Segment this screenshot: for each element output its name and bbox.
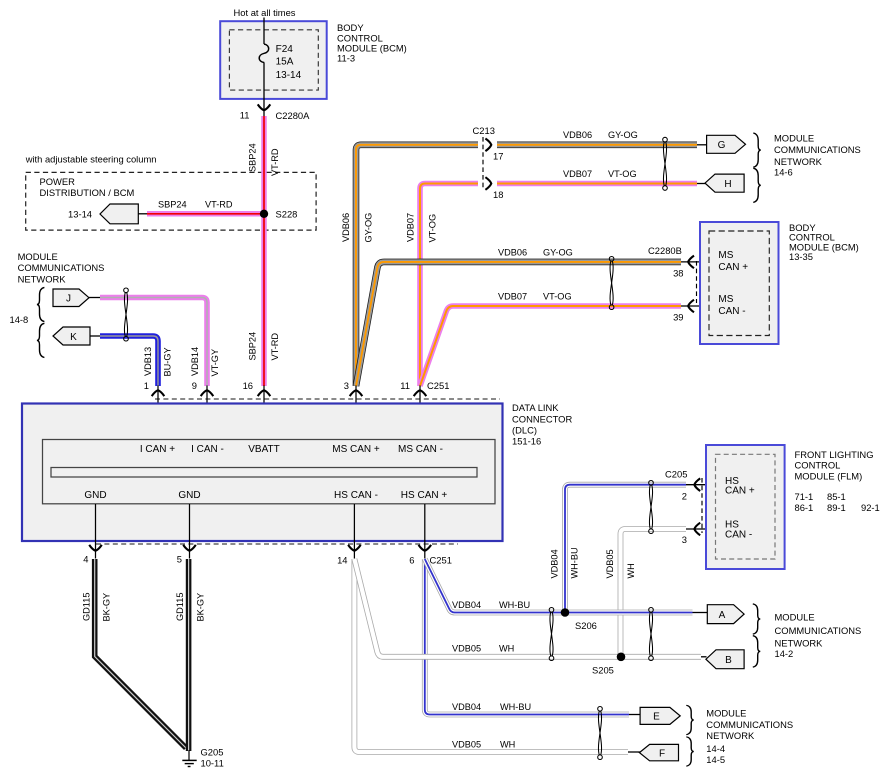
svg-text:VT-OG: VT-OG	[608, 169, 637, 179]
svg-text:11: 11	[400, 380, 410, 391]
svg-text:BU-GY: BU-GY	[163, 347, 173, 376]
svg-text:MODULE: MODULE	[706, 707, 746, 718]
svg-text:CAN +: CAN +	[725, 486, 755, 497]
labels VDB04 WH-BU (E row)	[452, 702, 531, 712]
svg-text:VT-RD: VT-RD	[270, 333, 280, 361]
svg-text:6: 6	[409, 555, 414, 566]
svg-text:E: E	[653, 712, 660, 723]
svg-text:HS CAN -: HS CAN -	[334, 490, 378, 501]
dashed box: with adjustable steering column	[26, 172, 316, 230]
svg-text:BK-GY: BK-GY	[101, 593, 111, 622]
connector pentagon A	[707, 605, 744, 624]
svg-text:MS CAN +: MS CAN +	[332, 444, 380, 455]
svg-text:86-1: 86-1	[795, 502, 814, 513]
svg-text:S206: S206	[575, 620, 597, 631]
connector C213 dashed line	[473, 125, 495, 189]
svg-text:MODULE: MODULE	[774, 133, 814, 144]
svg-text:17: 17	[493, 150, 503, 161]
BODY CONTROL MODULE (BCM) 13-35 box	[700, 222, 779, 344]
svg-text:VDB14: VDB14	[190, 347, 200, 376]
svg-text:13-14: 13-14	[276, 70, 302, 81]
DLC top dashed connector line	[155, 398, 500, 400]
svg-text:S205: S205	[592, 665, 614, 676]
label: MODULE COMMUNICATIONS NETWORK 14-4 14-5	[706, 707, 793, 765]
BCM pin MS CAN +	[718, 250, 748, 273]
svg-text:VDB07: VDB07	[563, 169, 592, 179]
svg-text:C251: C251	[430, 555, 452, 566]
labels VDB04 WH-BU (A row)	[452, 600, 530, 610]
svg-text:MODULE: MODULE	[775, 611, 815, 622]
svg-text:2: 2	[682, 490, 687, 501]
svg-text:VBATT: VBATT	[248, 444, 279, 455]
svg-text:3: 3	[344, 380, 349, 391]
ground G205	[182, 747, 223, 769]
svg-text:C2280B: C2280B	[648, 245, 682, 256]
svg-text:151-16: 151-16	[512, 435, 541, 446]
splice S205	[592, 653, 625, 676]
splice S228	[260, 209, 298, 220]
wire VDB14 VT-GY from J to DLC pin 9	[100, 298, 207, 387]
connector C2280A arrow, pin 11	[240, 104, 310, 121]
BCM pin MS CAN -	[718, 294, 745, 317]
rotated labels VDB05 WH	[605, 549, 636, 578]
label: MODULE COMMUNICATIONS NETWORK 14-6	[774, 133, 861, 178]
label: POWER DISTRIBUTION / BCM 13-14	[40, 176, 135, 220]
fuse box (BCM)	[220, 21, 327, 99]
svg-text:NETWORK: NETWORK	[706, 730, 755, 741]
svg-text:39: 39	[673, 312, 683, 323]
FRONT LIGHTING CONTROL MODULE (FLM) box	[706, 445, 785, 569]
svg-text:VDB04: VDB04	[452, 702, 481, 712]
C205 arrow pin 2	[682, 478, 716, 501]
svg-text:VDB07: VDB07	[498, 291, 527, 301]
svg-text:NETWORK: NETWORK	[774, 156, 823, 167]
wire VDB06 GY-OG to connector G	[497, 130, 697, 145]
wire from fuse to connector C2280A	[263, 63, 265, 117]
svg-text:VDB06: VDB06	[341, 213, 351, 242]
svg-text:GND: GND	[84, 490, 106, 501]
svg-text:G205: G205	[201, 747, 224, 758]
braces E/F	[686, 705, 694, 766]
FLM pin HS CAN -	[725, 520, 752, 541]
svg-text:FRONT LIGHTING: FRONT LIGHTING	[795, 449, 874, 460]
lead line J	[89, 297, 101, 299]
svg-text:MS CAN -: MS CAN -	[398, 444, 443, 455]
svg-text:10-11: 10-11	[201, 758, 224, 769]
svg-text:VDB06: VDB06	[498, 247, 527, 257]
braces J/K (facing left)	[37, 287, 45, 357]
svg-text:S228: S228	[276, 209, 298, 220]
svg-text:WH-BU: WH-BU	[500, 702, 531, 712]
fuse F24 15A	[259, 44, 301, 81]
wire SBP24 VT-RD horizontal to S228	[147, 211, 264, 217]
label: FRONT LIGHTING CONTROL MODULE (FLM)	[795, 449, 880, 513]
label: DATA LINK CONNECTOR (DLC) 151-16	[512, 402, 572, 446]
svg-text:14-6: 14-6	[774, 167, 793, 178]
wire VDB06 GY-OG vertical from DLC pin 3 to C213	[356, 145, 478, 386]
svg-text:Hot at all times: Hot at all times	[234, 7, 296, 18]
svg-text:11-3: 11-3	[337, 52, 355, 63]
lead line to H	[697, 183, 706, 185]
svg-text:MODULE: MODULE	[18, 251, 58, 262]
svg-text:5: 5	[177, 554, 182, 565]
wire VDB07 VT-OG to connector H	[497, 169, 697, 184]
svg-text:VDB05: VDB05	[452, 739, 481, 749]
svg-text:DISTRIBUTION / BCM: DISTRIBUTION / BCM	[40, 187, 135, 198]
svg-text:POWER: POWER	[40, 176, 76, 187]
wire VDB06 GY-OG diagonal from pin 3 to C2280B pin 38	[356, 247, 681, 386]
connector pentagon H	[705, 174, 744, 192]
svg-text:COMMUNICATIONS: COMMUNICATIONS	[18, 262, 105, 273]
DLC inner top labels	[140, 444, 443, 455]
rotated labels SBP24 VT-RD (lower, above pin 16)	[248, 332, 280, 361]
lead line to A	[693, 612, 709, 614]
svg-text:I CAN +: I CAN +	[140, 444, 175, 455]
label: MODULE COMMUNICATIONS NETWORK 14-2	[775, 611, 862, 659]
svg-text:VDB04: VDB04	[550, 549, 560, 578]
wire VDB05 WH diagonal from pin 14 to B row	[354, 559, 701, 657]
labels VDB05 WH (F row)	[452, 739, 515, 749]
svg-text:9: 9	[192, 380, 197, 391]
DLC pin arrows top: pins 1,9,16,3,11	[144, 380, 165, 440]
svg-text:GY-OG: GY-OG	[364, 213, 374, 243]
svg-text:MODULE (FLM): MODULE (FLM)	[795, 471, 863, 482]
svg-text:13-35: 13-35	[789, 251, 813, 262]
label: Hot at all times	[234, 7, 296, 18]
labels VDB05 WH (B row)	[452, 644, 514, 654]
wire VDB07 VT-OG diagonal from pin 11 to C2280B pin 39	[420, 291, 681, 386]
lead line to F	[628, 751, 640, 753]
svg-text:16: 16	[243, 380, 253, 391]
svg-text:VDB05: VDB05	[605, 549, 615, 578]
svg-text:BK-GY: BK-GY	[195, 593, 205, 622]
svg-text:WH: WH	[500, 739, 515, 749]
rotated labels GD115 BK-GY (pin 5)	[175, 593, 205, 622]
svg-text:VDB05: VDB05	[452, 644, 481, 654]
svg-text:MS: MS	[718, 250, 733, 261]
wire VDB04 WH-BU vertical from S206 up to C205 pin 2	[565, 485, 686, 611]
svg-text:VDB13: VDB13	[143, 347, 153, 376]
wire VDB04 WH-BU diagonal from pin 6 to A row	[425, 559, 693, 613]
svg-text:F: F	[659, 748, 665, 759]
svg-text:GY-OG: GY-OG	[608, 130, 638, 140]
DLC bottom dashed connector line	[96, 543, 458, 545]
svg-text:VT-OG: VT-OG	[543, 291, 572, 301]
svg-text:GD115: GD115	[81, 593, 91, 621]
svg-text:CAN -: CAN -	[725, 530, 752, 541]
twisted pair symbol E/F	[598, 707, 603, 760]
svg-text:GND: GND	[178, 490, 200, 501]
twisted pair symbol C205	[649, 481, 654, 534]
label: with adjustable steering column	[25, 154, 157, 165]
wire VDB05 WH from pin 14 down to F row	[354, 559, 628, 752]
svg-text:HS CAN +: HS CAN +	[401, 490, 448, 501]
wire from Hot at all times to fuse	[263, 18, 265, 45]
C213 arrow pin 17	[485, 139, 503, 162]
svg-text:13-14: 13-14	[68, 209, 92, 220]
braces A/B	[753, 604, 761, 667]
svg-text:VDB06: VDB06	[563, 130, 592, 140]
svg-text:C213: C213	[473, 125, 495, 136]
svg-text:VDB07: VDB07	[405, 213, 415, 242]
twisted pair symbol G/H	[663, 137, 668, 190]
rotated labels GD115 BK-GY (pin 4)	[81, 593, 111, 622]
braces G/H	[753, 133, 761, 202]
connector pentagon G	[707, 135, 746, 153]
connector C2280B label	[648, 245, 682, 256]
label: BODY CONTROL MODULE (BCM) 11-3	[337, 22, 407, 63]
svg-text:CONTROL: CONTROL	[795, 460, 841, 471]
svg-text:4: 4	[83, 554, 88, 565]
twisted pair symbols A/B rows	[549, 608, 554, 661]
svg-text:NETWORK: NETWORK	[18, 273, 67, 284]
svg-text:14: 14	[337, 555, 347, 566]
svg-text:H: H	[724, 179, 731, 190]
wire GD115 BK-GY from pin 5	[186, 559, 192, 751]
wire VDB13 BU-GY from K to DLC pin 1	[100, 336, 158, 386]
svg-text:GY-OG: GY-OG	[543, 247, 573, 257]
wire VDB07 VT-OG vertical from DLC pin 11 to C213	[420, 184, 478, 387]
svg-text:89-1: 89-1	[827, 502, 846, 513]
svg-text:C251: C251	[427, 380, 449, 391]
svg-text:14-8: 14-8	[10, 314, 29, 325]
rotated labels VDB14 VT-GY	[190, 347, 220, 377]
svg-text:(DLC): (DLC)	[512, 424, 537, 435]
svg-text:C2280A: C2280A	[276, 110, 311, 121]
svg-text:CAN -: CAN -	[718, 306, 745, 317]
C2280B arrow pin 38	[673, 256, 710, 279]
svg-text:GD115: GD115	[175, 593, 185, 621]
rotated labels SBP24 VT-RD (upper)	[248, 143, 280, 176]
svg-text:DATA LINK: DATA LINK	[512, 402, 559, 413]
svg-text:15A: 15A	[276, 57, 294, 68]
connector pentagon F	[639, 744, 678, 760]
connector pentagon: POWER DISTRIBUTION	[100, 204, 138, 224]
svg-text:14-4: 14-4	[706, 743, 725, 754]
svg-text:VT-RD: VT-RD	[270, 148, 280, 176]
DLC pin arrows bottom: pins 4,5,14,6	[83, 504, 102, 565]
svg-text:K: K	[70, 332, 77, 343]
svg-text:COMMUNICATIONS: COMMUNICATIONS	[774, 144, 861, 155]
svg-text:COMMUNICATIONS: COMMUNICATIONS	[775, 625, 862, 636]
label: MODULE COMMUNICATIONS NETWORK (J/K)	[18, 251, 105, 284]
connector pentagon B	[706, 650, 744, 669]
svg-text:71-1: 71-1	[795, 491, 814, 502]
lead line to G	[697, 144, 707, 146]
svg-text:11: 11	[240, 110, 250, 121]
svg-text:G: G	[718, 140, 726, 151]
svg-text:WH: WH	[499, 644, 514, 654]
svg-text:NETWORK: NETWORK	[775, 637, 824, 648]
svg-text:I CAN -: I CAN -	[191, 444, 224, 455]
svg-text:B: B	[725, 655, 732, 666]
C2280B dashed line	[696, 261, 698, 303]
rotated labels VDB04 WH-BU	[550, 547, 580, 578]
svg-text:VT-RD: VT-RD	[205, 200, 233, 210]
C213 arrow pin 18	[485, 177, 503, 200]
FLM pin HS CAN +	[725, 476, 755, 497]
svg-text:SBP24: SBP24	[158, 200, 187, 210]
wire SBP24 VT-RD vertical (fuse to DLC pin 16)	[261, 116, 267, 386]
wire VDB05 WH vertical from S205 up to C205 pin 3	[621, 529, 687, 655]
svg-text:85-1: 85-1	[827, 491, 846, 502]
rotated labels VDB06 GY-OG	[341, 213, 373, 243]
svg-text:VT-OG: VT-OG	[428, 214, 438, 243]
svg-text:CONNECTOR: CONNECTOR	[512, 413, 572, 424]
svg-text:F24: F24	[276, 44, 294, 55]
connector pentagon J	[53, 289, 89, 307]
svg-text:MS: MS	[718, 294, 733, 305]
splice S206	[561, 608, 597, 631]
twisted pair symbol C2280B	[609, 257, 614, 310]
labels SBP24 VT-RD horizontal	[158, 200, 233, 210]
svg-text:A: A	[719, 610, 726, 621]
svg-text:18: 18	[493, 189, 503, 200]
svg-text:WH-BU: WH-BU	[570, 547, 580, 578]
svg-text:WH-BU: WH-BU	[499, 600, 530, 610]
lead line to B	[701, 656, 707, 658]
rotated labels VDB13 BU-GY	[143, 347, 172, 377]
wire GD115 BK-GY from pin 4	[95, 559, 186, 748]
lead line pentagon to wire	[138, 213, 148, 215]
C2280B arrow pin 39	[673, 300, 710, 323]
svg-text:WH: WH	[626, 563, 636, 578]
wire VDB04 WH-BU from pin 6 down to E row	[425, 559, 629, 715]
twisted pair symbol J/K	[124, 288, 129, 341]
rotated labels VDB07 VT-OG	[405, 213, 437, 243]
connector pentagon K	[53, 327, 90, 345]
connector C205 label and dashed line	[665, 469, 702, 534]
label: BODY CONTROL MODULE (BCM) 13-35	[789, 222, 859, 262]
svg-text:with adjustable steering colum: with adjustable steering column	[25, 154, 157, 165]
svg-text:CAN +: CAN +	[718, 262, 748, 273]
svg-text:VDB04: VDB04	[452, 600, 481, 610]
svg-text:1: 1	[144, 380, 149, 391]
DATA LINK CONNECTOR (DLC) box	[22, 404, 503, 542]
DLC inner bottom labels	[84, 490, 447, 501]
svg-text:14-2: 14-2	[775, 648, 794, 659]
svg-text:14-5: 14-5	[706, 754, 725, 765]
svg-text:3: 3	[682, 534, 687, 545]
svg-text:SBP24: SBP24	[248, 332, 258, 361]
lead line K	[90, 335, 101, 337]
svg-text:J: J	[66, 294, 71, 305]
svg-text:COMMUNICATIONS: COMMUNICATIONS	[706, 719, 793, 730]
svg-text:VT-GY: VT-GY	[210, 349, 220, 377]
connector pentagon E	[640, 707, 680, 724]
svg-text:C205: C205	[665, 469, 687, 480]
C205 arrow pin 3	[682, 523, 716, 545]
svg-text:92-1: 92-1	[861, 502, 880, 513]
svg-text:38: 38	[673, 268, 683, 279]
svg-text:SBP24: SBP24	[248, 143, 258, 172]
lead line to E	[629, 714, 641, 716]
label 14-8	[10, 314, 29, 325]
